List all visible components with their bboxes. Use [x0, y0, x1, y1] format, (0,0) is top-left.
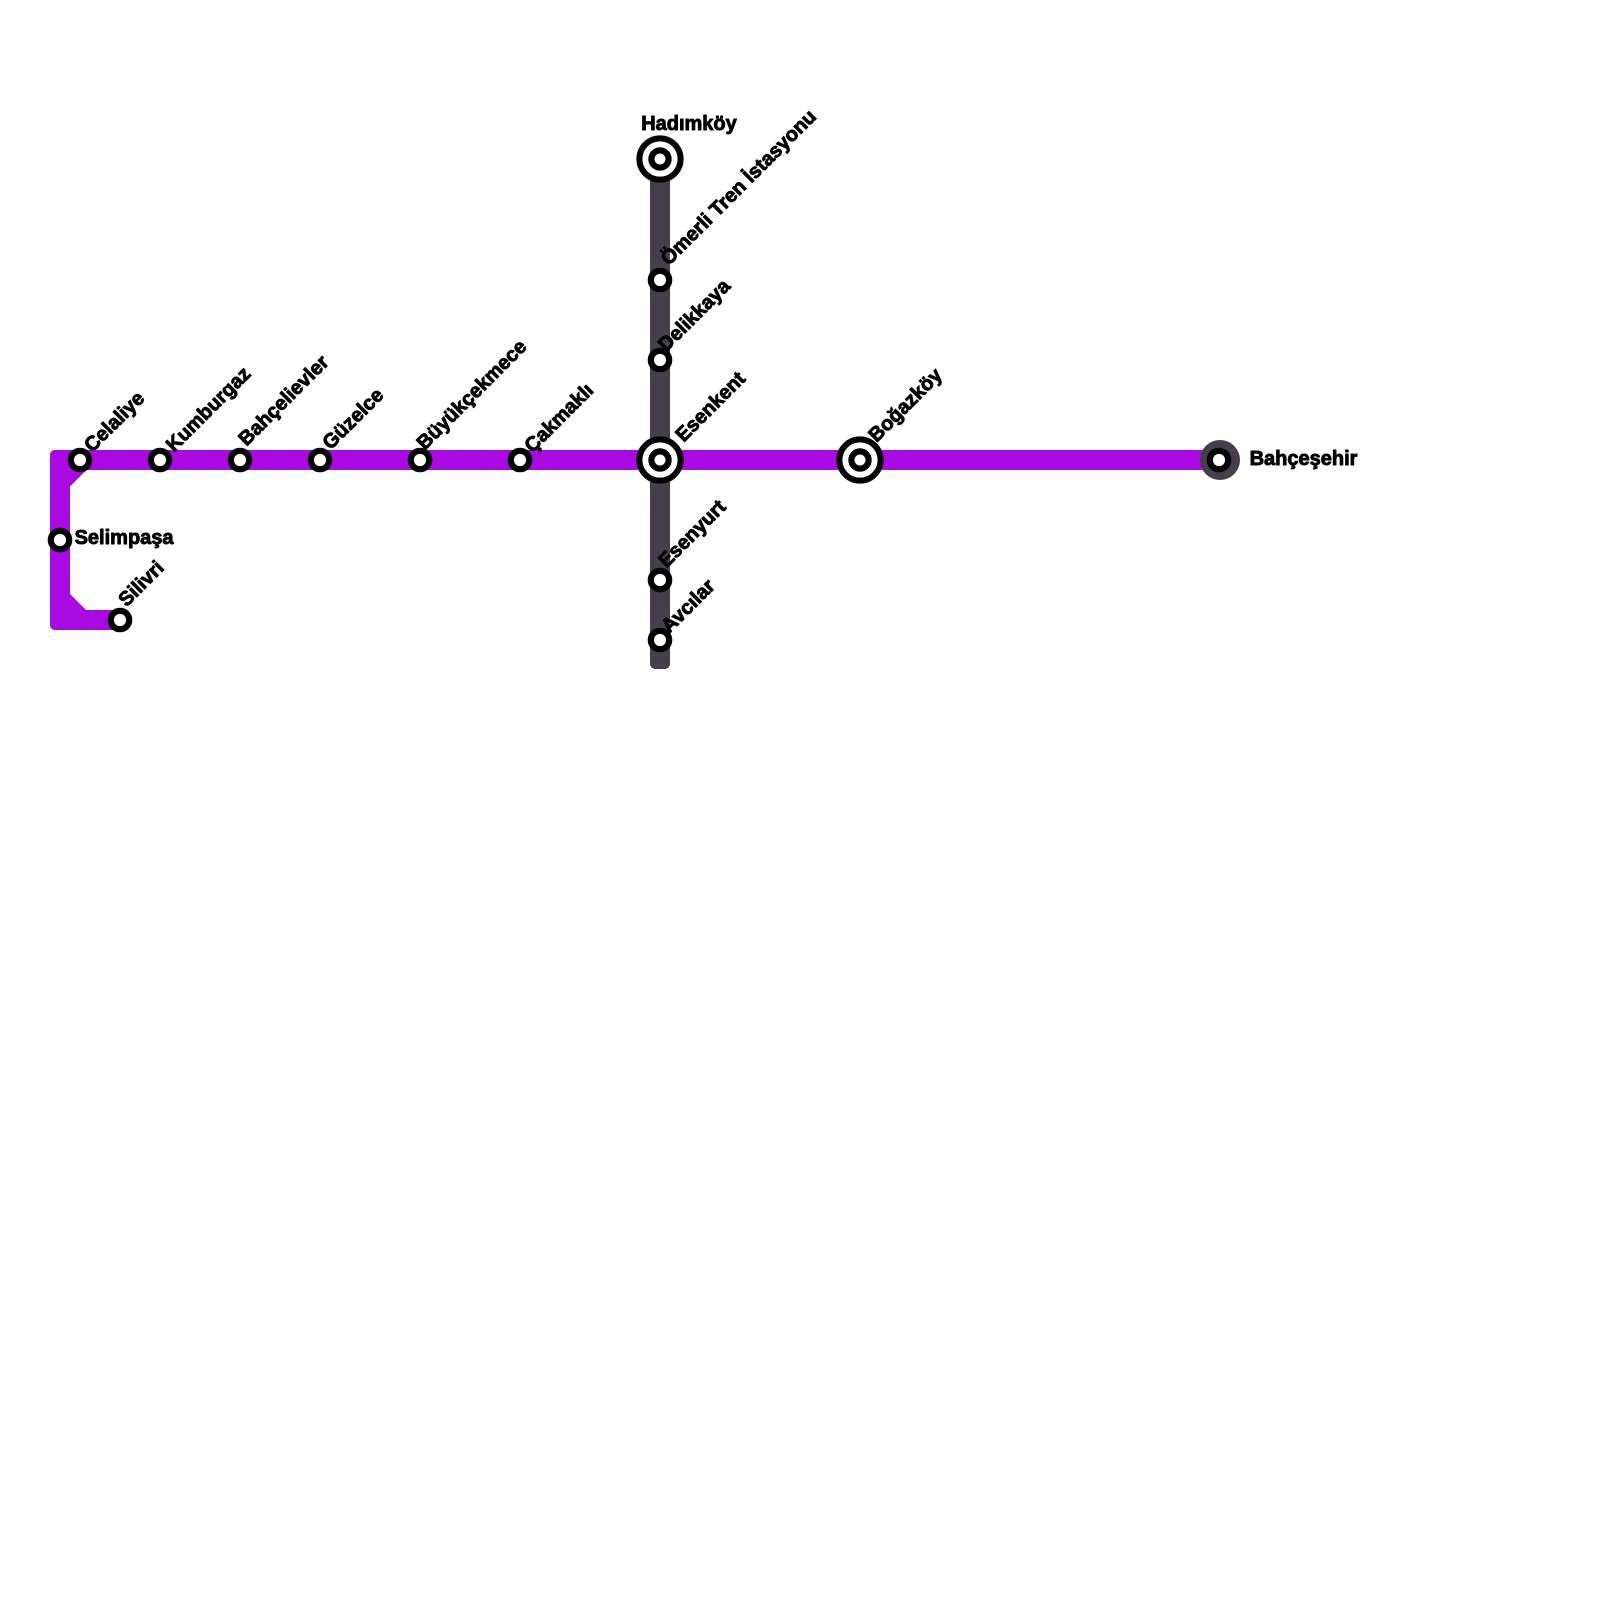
station Selimpaşa [51, 531, 69, 549]
interchange Boğazköy [839, 439, 880, 480]
station Kumburgaz [151, 451, 169, 469]
station Güzelce [311, 451, 329, 469]
dark line M2 vertical [650, 150, 670, 669]
station Ömerli [651, 271, 669, 289]
station Esenyurt [651, 571, 669, 589]
svg-text:Selimpaşa: Selimpaşa [75, 527, 175, 549]
station symbol Bahçeşehir [1210, 451, 1228, 469]
station Bahçelievler [231, 451, 249, 469]
station Delikkaya [651, 351, 669, 369]
station Silivri [111, 611, 129, 629]
purple line M1 horizontal rounded bar [50, 450, 1230, 470]
wire diagonal Silivri corner [60, 598, 80, 618]
svg-text:Hadımköy: Hadımköy [641, 113, 737, 135]
station Çakmaklı [511, 451, 529, 469]
Bahçeşehir terminus disc [1200, 440, 1240, 480]
station Büyükçekmece [411, 451, 429, 469]
station Celaliye [71, 451, 89, 469]
interchange Hadımköy [639, 138, 680, 179]
station Avcılar [651, 631, 669, 649]
interchange Esenkent [639, 439, 680, 480]
svg-text:Bahçeşehir: Bahçeşehir [1250, 448, 1358, 470]
wire diagonal Celaliye corner [61, 461, 81, 481]
purple line M1 bottom rounded bar to Silivri [50, 610, 130, 630]
purple line M1 left vertical rounded bar [50, 450, 70, 630]
